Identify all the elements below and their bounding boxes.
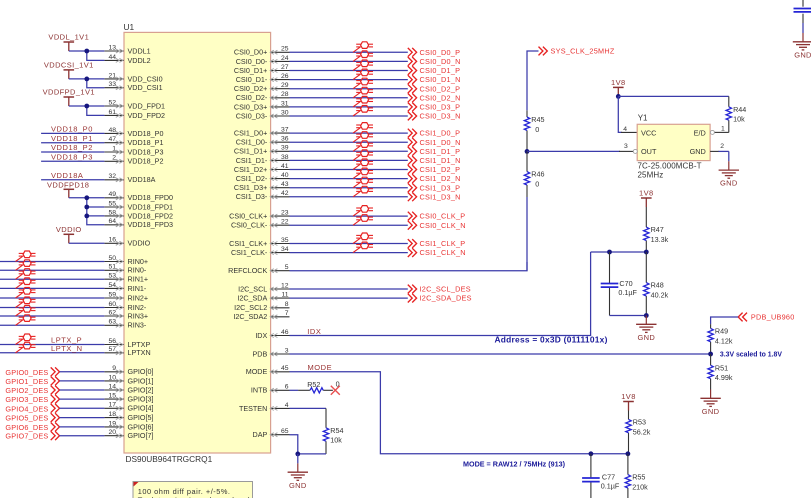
svg-text:VDDIO: VDDIO [56,225,82,234]
junction VDDFPD18 c [84,214,89,219]
pin 30 (CSI0_D3-) [236,109,290,120]
svg-text:36: 36 [281,136,289,143]
diff-pair probe mark CSI0_CLK_N [353,220,360,225]
capacitor (top right, partially cut) [794,0,811,23]
wire 1V8 down to Y1 VCC [618,96,637,132]
wire I2C_SCL_DES [290,288,408,290]
svg-text:PDB: PDB [253,349,268,358]
svg-text:35: 35 [281,237,289,244]
svg-text:VDD18_P3: VDD18_P3 [51,153,93,162]
svg-text:GPIO2_DES: GPIO2_DES [5,386,48,395]
svg-text:39: 39 [281,145,289,152]
wire CSI1_D0_N [290,141,408,143]
svg-text:CSI0_D1+: CSI0_D1+ [234,66,267,75]
wire GPIO7 [60,435,105,437]
power symbol VDDCSI_1V1 [44,61,94,79]
svg-text:24: 24 [281,55,289,62]
svg-text:CSI0_CLK+: CSI0_CLK+ [229,212,267,221]
pin 43 (CSI1_D3+) [234,181,290,192]
pin 6 (INTB) [251,384,290,395]
svg-text:I2C_SCL_DES: I2C_SCL_DES [420,285,471,294]
svg-text:MODE: MODE [308,363,333,372]
svg-text:VDD_CSI1: VDD_CSI1 [128,83,163,92]
svg-text:CSI0_D3_N: CSI0_D3_N [420,112,461,121]
pin 23 (CSI0_CLK+) [229,210,289,221]
wire CSI1_D1_N [290,159,408,161]
svg-text:VDD_CSI0: VDD_CSI0 [128,74,163,83]
pin 52 (VDD_FPD1) [104,99,165,110]
svg-text:63: 63 [108,319,116,326]
pin 50 (RIN0+) [104,255,148,266]
resistor R48 40.2k [644,252,669,316]
wire RIN3- [0,324,104,326]
svg-text:CSI0_D0-: CSI0_D0- [236,57,268,66]
svg-text:RIN0+: RIN0+ [128,257,149,266]
wire CSI1_D3_N [290,196,408,198]
junction VDDFPD [84,104,89,109]
svg-text:13: 13 [108,44,116,51]
off-page connector CSI1_D2_N [408,174,461,183]
svg-text:65: 65 [281,428,289,435]
svg-text:R51: R51 [715,363,728,372]
svg-text:RIN3+: RIN3+ [128,311,149,320]
svg-text:INTB: INTB [251,386,268,395]
svg-text:CSI1_D0_P: CSI1_D0_P [420,129,461,138]
pin 13 (VDDL1) [104,44,150,55]
svg-text:46: 46 [281,329,289,336]
wire CSI0_D3_N [290,115,408,117]
svg-text:CSI1_D2_P: CSI1_D2_P [420,165,461,174]
wire RIN1+ [0,278,104,280]
svg-text:CSI0_D2_N: CSI0_D2_N [420,93,461,102]
svg-text:GND: GND [794,50,811,59]
svg-text:GPIO[5]: GPIO[5] [128,413,154,422]
pin 44 (VDDL2) [104,54,150,65]
wire LPTX_P [0,344,104,346]
svg-text:DAP: DAP [253,430,268,439]
pin 45 (MODE) [246,365,290,376]
off-page connector CSI0_D0_P [408,48,460,57]
svg-text:GPIO[0]: GPIO[0] [128,367,154,376]
pin 35 (CSI1_CLK+) [229,237,289,248]
svg-text:29: 29 [281,82,289,89]
pin 61 (VDD_FPD2) [104,109,165,120]
wire RIN0+ [0,261,104,263]
off-page connector CSI0_D2_P [408,84,460,93]
svg-text:CSI0_D1-: CSI0_D1- [236,75,268,84]
diff-pair probe mark CSI0_D1_P [353,65,360,70]
pin 54 (RIN1-) [104,282,146,293]
wire VDD18_P1 [41,142,104,144]
svg-text:2: 2 [112,155,116,162]
svg-text:CSI1_D1-: CSI1_D1- [236,156,268,165]
svg-text:1: 1 [112,145,116,152]
svg-text:VDDL_1V1: VDDL_1V1 [48,33,89,42]
junction R48 bottom [644,313,649,318]
svg-text:61: 61 [108,109,116,116]
wire TESTEN to R54 [290,407,327,409]
diff-pair probe mark CSI0_D3_N [353,111,360,116]
svg-text:44: 44 [108,54,116,61]
wire GPIO3 [60,398,105,400]
svg-text:RIN1-: RIN1- [128,284,147,293]
svg-text:47: 47 [108,136,116,143]
pin 18 (GPIO[5]) [104,411,153,422]
svg-text:CSI0_D1_N: CSI0_D1_N [420,75,461,84]
svg-text:22: 22 [281,219,289,226]
svg-text:210k: 210k [632,483,648,492]
svg-text:CSI1_D1+: CSI1_D1+ [234,147,267,156]
diff-pair probe mark RIN 1 [16,265,23,270]
wire CSI0_D0_N [290,60,408,62]
svg-text:I2C_SDA: I2C_SDA [237,294,267,303]
resistor R52 (0 ohm, DNP) [298,380,340,393]
resistor R53 56.2k [626,411,651,454]
pin 38 (CSI1_D1-) [236,154,290,165]
svg-text:55: 55 [108,200,116,207]
svg-text:R55: R55 [632,473,645,482]
svg-text:E/D: E/D [694,129,706,138]
svg-text:VDD18_P0: VDD18_P0 [128,129,164,138]
resistor R54 10k [323,408,343,454]
svg-text:CSI1_D1_N: CSI1_D1_N [420,156,461,165]
off-page connector GPIO1_DES [5,377,59,386]
svg-text:SYS_CLK_25MHZ: SYS_CLK_25MHZ [551,47,615,56]
svg-text:CSI0_CLK-: CSI0_CLK- [231,221,268,230]
svg-text:GPIO5_DES: GPIO5_DES [5,414,48,423]
off-page connector CSI1_D0_P [408,129,460,138]
pin 8 (I2C_SCL2) [234,301,289,312]
svg-text:VDD18_P1: VDD18_P1 [128,138,164,147]
pin 34 (CSI1_CLK-) [231,246,290,257]
pin 15 (GPIO[3]) [104,393,153,404]
junction 1V8 osc [616,94,621,99]
svg-text:CSI1_D2+: CSI1_D2+ [234,165,267,174]
pin 10 (GPIO[1]) [104,374,153,385]
svg-text:58: 58 [108,209,116,216]
diff-pair probe mark CSI1_D3_N [353,192,360,197]
svg-text:0: 0 [535,125,539,134]
svg-text:30: 30 [281,109,289,116]
svg-text:CSI0_D0+: CSI0_D0+ [234,48,267,57]
pin 49 (VDD18_FPD0) [104,191,173,202]
wire VDDIO [69,242,105,244]
svg-text:VCC: VCC [641,129,656,138]
power symbol 1V8 (MODE divider) [621,392,636,410]
svg-text:CSI0_D3-: CSI0_D3- [236,111,268,120]
wire CSI1_D2_N [290,178,408,180]
wire MODE net [290,372,628,454]
pin 53 (RIN1+) [104,273,148,284]
pin 26 (CSI0_D1-) [236,73,290,84]
wire RIN3+ [0,315,104,317]
wire VDD18_P0 [41,132,104,134]
svg-text:2: 2 [720,143,724,150]
junction VDDL [84,49,89,54]
diff-pair probe mark CSI0_D3_P [353,102,360,107]
svg-text:VDD18_P2: VDD18_P2 [128,157,164,166]
diff-pair probe mark RIN 3 [16,283,23,288]
svg-text:CSI1_D3_N: CSI1_D3_N [420,192,461,201]
pin 42 (CSI1_D3-) [236,190,290,201]
pin 29 (CSI0_D2+) [234,82,290,93]
svg-text:CSI1_D0+: CSI1_D0+ [234,129,267,138]
wire RIN2+ [0,297,104,299]
svg-text:CSI0_D0_N: CSI0_D0_N [420,57,461,66]
svg-text:59: 59 [108,291,116,298]
svg-text:10: 10 [108,374,116,381]
svg-text:RIN2+: RIN2+ [128,293,149,302]
svg-text:26: 26 [281,73,289,80]
diff-pair probe mark CSI0_CLK_P [353,211,360,216]
wire CSI0_D1_P [290,70,408,72]
pin 7 (I2C_SDA2) [233,310,289,321]
pin 9 (GPIO[0]) [104,365,153,376]
svg-text:51: 51 [108,264,116,271]
svg-text:45: 45 [281,365,289,372]
svg-text:20: 20 [108,429,116,436]
ground GND top right [793,33,811,59]
svg-text:R45: R45 [531,115,544,124]
junction VDDCSI [84,77,89,82]
svg-text:CSI1_D2-: CSI1_D2- [236,174,268,183]
svg-text:CSI0_D3_P: CSI0_D3_P [420,103,461,112]
svg-text:1V8: 1V8 [639,189,654,198]
off-page connector GPIO5_DES [5,413,59,422]
wire R47 bottom node [591,251,647,253]
wire net VDDFPD18 [69,198,105,225]
svg-text:40: 40 [281,172,289,179]
wire R46 to REFCLOCK [526,197,528,271]
svg-text:38: 38 [281,154,289,161]
pin 59 (RIN2+) [104,291,148,302]
off-page connector CSI0_D3_P [408,103,460,112]
diff-pair probe mark CSI1_D3_P [353,183,360,188]
junction C77 [589,451,594,456]
svg-text:42: 42 [281,190,289,197]
wire net VDDFPD to pins [69,106,105,115]
pin 1 (VDD18_P3) [104,145,163,156]
svg-text:VDD18_P3: VDD18_P3 [128,147,164,156]
svg-text:VDD18_FPD1: VDD18_FPD1 [128,202,174,211]
svg-text:3: 3 [624,143,628,150]
wire R44 bottom to Y1 E/D [715,131,729,133]
wire C70 bottom to R48 bottom [610,315,647,317]
pin 31 (CSI0_D3+) [234,100,290,111]
diff-pair probe mark RIN 6 [16,311,23,316]
svg-text:10k: 10k [733,115,745,124]
svg-text:12: 12 [281,282,289,289]
pin 5 (REFCLOCK) [228,264,289,275]
wire INTB [290,389,299,391]
svg-text:6: 6 [285,384,289,391]
wire CSI0_CLK_P [290,215,408,217]
svg-text:VDD18A: VDD18A [51,171,83,180]
wire RIN2- [0,307,104,309]
power symbol VDDIO [56,225,82,243]
wire CSI1_D2_P [290,169,408,171]
pin 56 (LPTXP) [104,338,150,349]
svg-text:23: 23 [281,210,289,217]
junction R45/R46/Y1 [525,149,530,154]
diff-pair probe mark CSI0_D0_N [353,56,360,61]
svg-text:MODE = RAW12 / 75MHz (913): MODE = RAW12 / 75MHz (913) [463,460,566,469]
wire CSI1_CLK_P [290,243,408,245]
off-page connector SYS_CLK_25MHZ [539,47,615,56]
pin 21 (VDD_CSI0) [104,72,162,83]
svg-text:C77: C77 [602,472,615,481]
svg-text:60: 60 [108,301,116,308]
svg-text:53: 53 [108,273,116,280]
svg-text:VDD_FPD1: VDD_FPD1 [128,101,166,110]
wire VDD18_P2 [41,151,104,153]
svg-text:32: 32 [108,173,116,180]
junction R47/R48 [644,250,649,255]
svg-text:CSI1_CLK+: CSI1_CLK+ [229,239,267,248]
pin 22 (CSI0_CLK-) [231,219,290,230]
svg-text:R52: R52 [307,380,320,389]
pin 39 (CSI1_D1+) [234,145,290,156]
svg-text:56: 56 [108,338,116,345]
svg-text:33: 33 [108,81,116,88]
svg-text:VDD_FPD2: VDD_FPD2 [128,111,166,120]
svg-text:REFCLOCK: REFCLOCK [228,266,267,275]
svg-text:VDD18A: VDD18A [128,175,156,184]
svg-text:7C-25.000MCB-T: 7C-25.000MCB-T [638,161,702,170]
svg-text:CSI0_D0_P: CSI0_D0_P [420,48,461,57]
DNP mark X on R52 [331,386,340,395]
svg-text:GPIO[6]: GPIO[6] [128,422,154,431]
wire CSI0_D1_N [290,79,408,81]
svg-text:1: 1 [721,126,725,133]
svg-text:U1: U1 [124,22,135,32]
pin 55 (VDD18_FPD1) [104,200,173,211]
wire CSI0_D2_N [290,97,408,99]
svg-text:0.1µF: 0.1µF [618,288,637,297]
svg-text:0.1µF: 0.1µF [601,481,620,490]
svg-text:3: 3 [285,347,289,354]
diff-pair probe mark CSI1_CLK_N [353,248,360,253]
off-page connector CSI1_D3_N [408,192,461,201]
svg-text:GPIO[7]: GPIO[7] [128,431,154,440]
wire CSI1_D0_P [290,132,408,134]
svg-text:GPIO4_DES: GPIO4_DES [5,404,48,413]
svg-text:OUT: OUT [641,147,657,156]
svg-text:4.99k: 4.99k [715,373,733,382]
resistor R44 10k [726,96,746,132]
svg-text:VDD18_FPD2: VDD18_FPD2 [128,211,174,220]
diff-pair probe mark RIN 4 [16,293,23,298]
ground GND at R51 [700,390,720,416]
svg-text:9: 9 [112,365,116,372]
svg-text:Y1: Y1 [638,114,648,123]
ground GND at DAP [288,463,308,489]
svg-text:4: 4 [285,402,289,409]
pin 60 (RIN2-) [104,301,146,312]
note box: 100 ohm diff pair [133,482,254,498]
diff-pair probe mark CSI1_D2_P [353,164,360,169]
svg-text:19: 19 [108,420,116,427]
svg-text:17: 17 [108,402,116,409]
wire cap to ground (top right) [802,23,804,33]
svg-text:I2C_SCL: I2C_SCL [238,284,267,293]
svg-text:5: 5 [285,264,289,271]
svg-text:VDD18_FPD3: VDD18_FPD3 [128,220,174,229]
svg-text:43: 43 [281,181,289,188]
wire net VDDCSI to pins [69,79,105,88]
svg-text:GND: GND [702,407,720,416]
svg-text:8: 8 [285,301,289,308]
off-page connector CSI1_D3_P [408,183,460,192]
off-page connector CSI1_CLK_P [408,239,466,248]
wire I2C_SDA_DES [290,297,408,299]
wire CSI1_D1_P [290,150,408,152]
diff-pair probe mark LPTX_N [16,348,23,353]
svg-text:56.2k: 56.2k [633,427,651,436]
pin 47 (VDD18_P1) [104,136,163,147]
off-page connector CSI0_CLK_N [408,221,466,230]
power symbol VDDFPD18 [47,181,89,198]
pin 62 (RIN3+) [104,309,148,320]
wire CSI0_D3_P [290,106,408,108]
svg-text:LPTX_N: LPTX_N [51,344,83,353]
diff-pair probe mark LPTX_P [16,339,23,344]
pin 19 (GPIO[6]) [104,420,153,431]
pin 32 (VDD18A) [104,173,155,184]
diff-pair probe mark CSI1_D1_P [353,146,360,151]
svg-text:54: 54 [108,282,116,289]
svg-text:57: 57 [108,346,116,353]
svg-text:CSI0_D2-: CSI0_D2- [236,93,268,102]
svg-text:CSI1_D3+: CSI1_D3+ [234,183,267,192]
svg-text:CSI1_D3_P: CSI1_D3_P [420,183,461,192]
svg-text:GND: GND [690,147,706,156]
wire VDD18A [41,179,104,181]
diff-pair probe mark RIN 0 [16,256,23,261]
pin 33 (VDD_CSI1) [104,81,162,92]
wire RIN1- [0,287,104,289]
pin 48 (VDD18_P0) [104,127,163,138]
off-page connector CSI0_D0_N [408,57,461,66]
off-page connector CSI1_D0_N [408,138,461,147]
svg-text:RIN0-: RIN0- [128,266,147,275]
svg-text:GND: GND [289,481,307,490]
off-page connector I2C_SCL_DES [408,285,471,294]
capacitor C70 0.1uF [601,252,638,316]
svg-text:VDDL1: VDDL1 [128,46,151,55]
svg-text:CSI0_CLK_P: CSI0_CLK_P [420,212,466,221]
off-page connector GPIO7_DES [5,431,59,440]
svg-text:CSI1_D0_N: CSI1_D0_N [420,138,461,147]
svg-text:MODE: MODE [246,367,268,376]
wire LPTX_N [0,352,104,354]
junction PDB node [708,352,713,357]
svg-text:VDD18_P0: VDD18_P0 [51,125,93,134]
svg-text:CSI1_CLK-: CSI1_CLK- [231,248,268,257]
pin 28 (CSI0_D2-) [236,91,290,102]
pin 4 (TESTEN) [239,402,290,413]
pin 58 (VDD18_FPD2) [104,209,173,220]
svg-text:TESTEN: TESTEN [239,404,267,413]
svg-text:IDX: IDX [307,327,321,336]
svg-text:31: 31 [281,100,289,107]
off-page connector I2C_SDA_DES [408,294,472,303]
svg-text:VDDFPD18: VDDFPD18 [47,181,89,190]
wire PDB_UB960 to R49 [711,317,739,324]
pin 40 (CSI1_D2-) [236,172,290,183]
wire GPIO5 [60,417,105,419]
svg-text:RIN1+: RIN1+ [128,275,149,284]
